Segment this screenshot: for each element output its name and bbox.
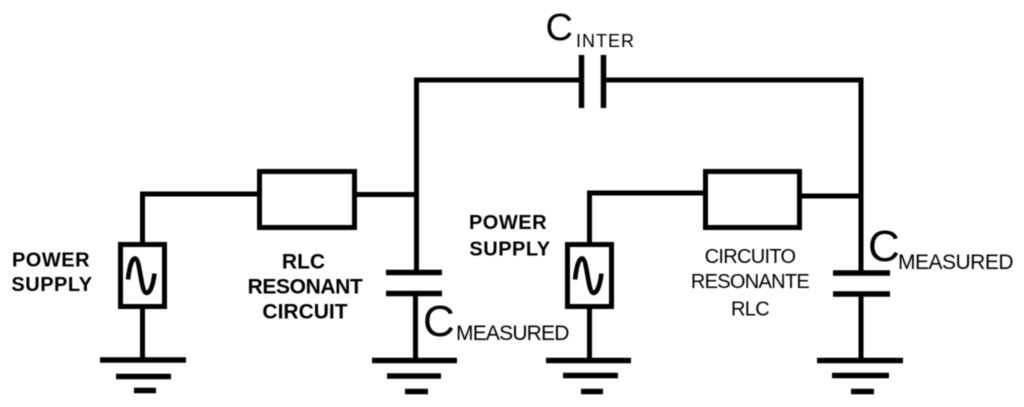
label RLC RESONANT CIRCUIT — [248, 251, 363, 324]
wire — [859, 295, 864, 358]
AC source sine PS2 — [575, 258, 602, 292]
svg-text:INTER: INTER — [576, 31, 635, 51]
label POWER SUPPLY right — [469, 212, 551, 261]
svg-text:RLC: RLC — [731, 299, 769, 321]
wire — [413, 294, 418, 358]
svg-text:RESONANT: RESONANT — [248, 276, 363, 299]
svg-text:CIRCUITO: CIRCUITO — [705, 246, 796, 268]
wire — [799, 194, 861, 199]
capacitor CMEASURED1 — [386, 273, 442, 294]
AC source sine PS1 — [128, 258, 155, 292]
power supply PS1 — [121, 245, 165, 307]
label CINTER — [546, 7, 636, 51]
svg-text:C: C — [546, 7, 573, 49]
svg-text:C: C — [868, 222, 900, 271]
ground GND1 — [100, 360, 186, 391]
label CMEASURED2 — [868, 222, 1013, 274]
wire — [143, 194, 260, 244]
svg-text:C: C — [423, 297, 455, 346]
label POWER SUPPLY left — [11, 250, 92, 297]
capacitor CINTER — [582, 55, 604, 108]
svg-text:SUPPLY: SUPPLY — [11, 274, 92, 296]
wire — [587, 307, 592, 358]
label CMEASURED1 — [423, 297, 569, 346]
ground GND3 — [546, 361, 631, 392]
svg-text:RLC: RLC — [282, 251, 325, 274]
svg-text:CIRCUIT: CIRCUIT — [262, 301, 347, 324]
svg-text:MEASURED: MEASURED — [898, 251, 1013, 274]
label CIRCUITO RESONANTE RLC — [691, 246, 810, 321]
wire — [604, 80, 861, 271]
ground GND4 — [817, 361, 903, 392]
block circuito resonante RLC — [706, 172, 800, 228]
wire — [590, 193, 706, 244]
block RLC resonant circuit — [260, 172, 355, 228]
svg-text:POWER: POWER — [12, 250, 90, 272]
power supply PS2 — [568, 245, 612, 307]
svg-text:MEASURED: MEASURED — [456, 322, 569, 345]
svg-text:SUPPLY: SUPPLY — [469, 239, 550, 261]
wire — [355, 192, 416, 197]
wire — [417, 80, 582, 272]
wire — [140, 307, 145, 358]
capacitor CMEASURED2 — [833, 273, 890, 294]
svg-text:RESONANTE: RESONANTE — [691, 271, 810, 293]
ground GND2 — [372, 361, 457, 392]
svg-text:POWER: POWER — [469, 212, 547, 234]
